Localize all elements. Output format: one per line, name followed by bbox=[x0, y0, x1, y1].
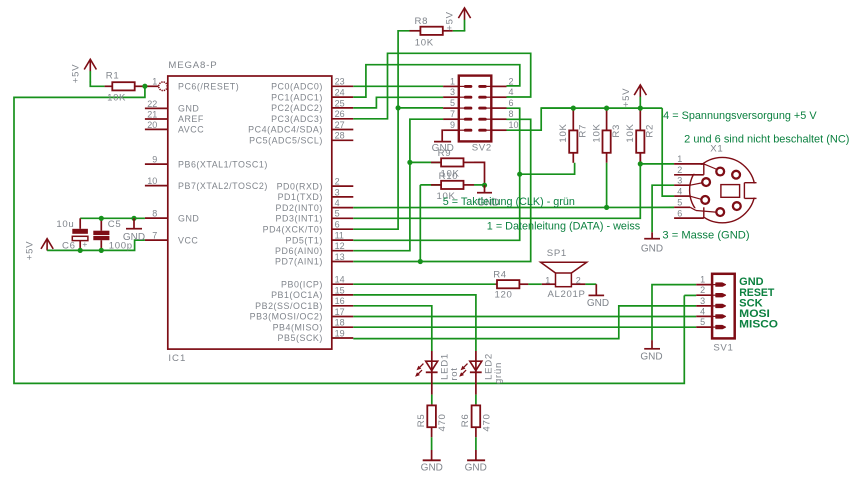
svg-text:1: 1 bbox=[545, 275, 550, 285]
svg-text:3 = Masse (GND): 3 = Masse (GND) bbox=[662, 229, 749, 241]
wire PB5 pin19 to SV1 pin3 SCK bbox=[353, 306, 696, 339]
junction R3 / CLK bbox=[604, 205, 609, 210]
svg-text:4: 4 bbox=[700, 306, 705, 316]
svg-text:10K: 10K bbox=[415, 38, 434, 49]
svg-text:PB0(ICP): PB0(ICP) bbox=[281, 279, 323, 289]
svg-text:PD3(INT1): PD3(INT1) bbox=[276, 214, 323, 224]
svg-text:1: 1 bbox=[152, 77, 157, 87]
svg-text:PD1(TXD): PD1(TXD) bbox=[278, 192, 323, 202]
svg-text:PC4(ADC4/SDA): PC4(ADC4/SDA) bbox=[248, 125, 323, 135]
svg-text:4: 4 bbox=[677, 186, 682, 196]
wire node to SV2 pin 5 bbox=[398, 107, 443, 109]
svg-text:PB7(XTAL2/TOSC2): PB7(XTAL2/TOSC2) bbox=[178, 181, 268, 191]
svg-text:+5V: +5V bbox=[445, 11, 456, 30]
IC1 pin 22 GND bbox=[145, 99, 199, 114]
svg-text:10u: 10u bbox=[56, 219, 74, 230]
IC1 pin 17 PB3(MOSI/OC2) bbox=[250, 307, 354, 322]
resistor R2 10K bbox=[625, 108, 656, 163]
svg-text:GND: GND bbox=[587, 298, 609, 309]
svg-text:GND: GND bbox=[465, 463, 487, 474]
SV1 pin 2 RESET bbox=[696, 285, 775, 299]
svg-text:25: 25 bbox=[335, 98, 345, 108]
IC1 pin 12 PD6(AIN0) bbox=[275, 241, 353, 256]
svg-text:2: 2 bbox=[677, 165, 682, 175]
wire DATA riser to PD3 pin5 bbox=[353, 164, 640, 218]
resistor R7 10K bbox=[558, 108, 589, 163]
resistor R5 470 bbox=[416, 405, 448, 431]
wire +5V rail to VCC bbox=[47, 240, 145, 250]
svg-text:PC2(ADC2): PC2(ADC2) bbox=[271, 103, 323, 113]
IC1 pin 26 PC3(ADC3) bbox=[271, 109, 353, 124]
svg-text:PC5(ADC5/SCL): PC5(ADC5/SCL) bbox=[249, 136, 323, 146]
+5V supply symbol (R8) bbox=[445, 8, 471, 31]
svg-text:5: 5 bbox=[700, 317, 705, 327]
junction R3 top bbox=[604, 106, 609, 111]
svg-text:GND: GND bbox=[640, 351, 662, 362]
junction R9 left bbox=[407, 160, 412, 165]
resistor R9 bbox=[410, 148, 474, 179]
wire PB0 pin14 to R4 bbox=[353, 283, 495, 285]
IC IC1 MEGA8-P body bbox=[168, 60, 332, 364]
svg-text:4: 4 bbox=[335, 198, 340, 208]
wire R8 left riser bbox=[398, 31, 409, 108]
IC1 pin 23 PC0(ADC0) bbox=[271, 77, 353, 92]
IC1 pin 10 PB7(XTAL2/TOSC2) bbox=[145, 176, 268, 191]
+5V supply symbol (R1) bbox=[71, 59, 97, 83]
wire DATA node to X1 pin1 bbox=[640, 163, 674, 165]
svg-text:PB6(XTAL1/TOSC1): PB6(XTAL1/TOSC1) bbox=[178, 159, 268, 169]
svg-text:R4: R4 bbox=[493, 269, 507, 280]
IC1 pin 5 PD3(INT1) bbox=[276, 209, 354, 224]
wire PB2 pin16 to LED1 bbox=[353, 306, 432, 351]
ground symbol (R5) bbox=[421, 460, 443, 473]
svg-text:AREF: AREF bbox=[178, 114, 204, 124]
wire R9 right to GND node bbox=[474, 162, 485, 185]
wire SV2 pin7 riser to R9 and PD6 pin12 bbox=[353, 119, 443, 251]
svg-text:28: 28 bbox=[335, 131, 345, 141]
IC1 pin 6 PD4(XCK/T0) bbox=[263, 220, 354, 235]
svg-text:R3: R3 bbox=[611, 124, 622, 138]
wire GND rail (C6 C5 to pin 8) bbox=[80, 217, 145, 219]
IC1 pin 7 VCC bbox=[145, 231, 199, 246]
svg-text:5: 5 bbox=[677, 198, 682, 208]
+5V supply symbol (pullup rail) bbox=[621, 85, 646, 108]
resistor R1 bbox=[105, 71, 145, 104]
wire PC3 pin26 to SV2 pin4 bbox=[353, 53, 530, 119]
svg-text:GND: GND bbox=[641, 243, 663, 254]
SV2 pin 1 bbox=[443, 76, 471, 86]
wire LED2 to R6 bbox=[475, 372, 477, 405]
resistor R6 470 bbox=[460, 405, 492, 431]
svg-text:1: 1 bbox=[677, 154, 682, 164]
svg-text:AVCC: AVCC bbox=[178, 125, 204, 135]
svg-text:10K: 10K bbox=[107, 92, 126, 103]
connector SV1 pin header 1x5 bbox=[712, 274, 735, 354]
svg-text:R8: R8 bbox=[415, 16, 429, 27]
IC1 pin 13 PD7(AIN1) bbox=[275, 252, 353, 267]
svg-text:+: + bbox=[82, 239, 87, 249]
junction C5 bottom bbox=[99, 248, 104, 253]
svg-text:6: 6 bbox=[509, 98, 514, 108]
wire R5 to GND bbox=[431, 427, 433, 460]
svg-text:2: 2 bbox=[576, 275, 581, 285]
IC1 pin 19 PB5(SCK) bbox=[278, 328, 354, 343]
svg-text:1: 1 bbox=[450, 76, 455, 86]
svg-text:24: 24 bbox=[335, 88, 345, 98]
svg-text:PC3(ADC3): PC3(ADC3) bbox=[271, 114, 323, 124]
svg-text:PB2(SS/OC1B): PB2(SS/OC1B) bbox=[255, 301, 323, 311]
SV2 pin 4 bbox=[480, 87, 514, 97]
wire PC2 pin25 to SV2 pin3 bbox=[353, 97, 443, 108]
junction C6 bottom bbox=[78, 248, 83, 253]
wire R3 bottom to CLK line bbox=[606, 163, 608, 208]
svg-text:2: 2 bbox=[700, 285, 705, 295]
capacitor C5 100p bbox=[93, 218, 132, 251]
wire PC0 pin23 to SV2 pin1 bbox=[353, 85, 443, 87]
svg-text:10K: 10K bbox=[591, 123, 602, 142]
svg-text:SV1: SV1 bbox=[713, 342, 733, 353]
junction R7 top bbox=[571, 106, 576, 111]
svg-text:12: 12 bbox=[335, 241, 345, 251]
svg-text:R9: R9 bbox=[438, 148, 452, 159]
+5V supply symbol (C6) bbox=[24, 239, 53, 261]
svg-text:6: 6 bbox=[335, 220, 340, 230]
IC1 pin 25 PC2(ADC2) bbox=[271, 98, 353, 113]
junction R2 top / +5V bbox=[638, 106, 643, 111]
svg-text:15: 15 bbox=[335, 285, 345, 295]
wire +5V rail to X1 pin 4 bbox=[662, 108, 674, 196]
IC1 pin 28 PC5(ADC5/SCL) bbox=[249, 131, 353, 146]
svg-text:+5V: +5V bbox=[24, 241, 35, 260]
svg-text:GND: GND bbox=[123, 232, 145, 243]
svg-text:rot: rot bbox=[449, 367, 460, 380]
svg-text:8: 8 bbox=[152, 209, 157, 219]
wire X1 pin3 to GND bbox=[652, 185, 674, 232]
svg-text:470: 470 bbox=[482, 413, 493, 431]
IC1 pin 16 PB2(SS/OC1B) bbox=[255, 296, 353, 311]
svg-text:6: 6 bbox=[677, 208, 682, 218]
speaker SP1 AL201P bbox=[541, 248, 587, 300]
capacitor C6 10u bbox=[56, 218, 88, 251]
junction R9/R10 GND bbox=[482, 183, 487, 188]
svg-text:GND: GND bbox=[421, 463, 443, 474]
svg-text:R1: R1 bbox=[106, 71, 120, 82]
svg-text:27: 27 bbox=[335, 120, 345, 130]
wire R6 to GND bbox=[475, 427, 477, 460]
svg-text:1: 1 bbox=[700, 275, 705, 285]
svg-text:4 = Spannungsversorgung +5 V: 4 = Spannungsversorgung +5 V bbox=[663, 110, 817, 122]
svg-text:9: 9 bbox=[450, 120, 455, 130]
svg-text:+5V: +5V bbox=[621, 88, 632, 107]
wire node to PD4 pin 6 bbox=[353, 108, 398, 229]
svg-text:PD5(T1): PD5(T1) bbox=[286, 235, 323, 245]
svg-text:470: 470 bbox=[437, 413, 448, 431]
svg-text:20: 20 bbox=[147, 120, 157, 130]
svg-text:MEGA8-P: MEGA8-P bbox=[168, 60, 217, 71]
X1 pin 6 bbox=[674, 208, 704, 218]
IC1 pin 2 PD0(RXD) bbox=[277, 177, 354, 192]
X1 pin 3 bbox=[674, 175, 690, 185]
junction C5 top bbox=[99, 216, 104, 221]
svg-text:2: 2 bbox=[509, 76, 514, 86]
ground symbol (R6) bbox=[465, 460, 487, 473]
svg-text:IC1: IC1 bbox=[168, 353, 186, 364]
svg-text:GND: GND bbox=[178, 104, 199, 114]
svg-text:7: 7 bbox=[450, 109, 455, 119]
IC1 pin 8 GND bbox=[145, 209, 199, 224]
IC1 pin 15 PB1(OC1A) bbox=[271, 285, 353, 300]
LED LED1 rot bbox=[415, 351, 460, 381]
wire R8 to +5V bbox=[453, 29, 465, 32]
SV2 pin 8 bbox=[480, 109, 514, 119]
svg-text:+5V: +5V bbox=[71, 64, 82, 83]
wire PC1 pin24 to SV2 pin2 bbox=[353, 65, 520, 97]
wire R10 to PD7 pin13 riser bbox=[419, 185, 421, 262]
SV2 pin 9 bbox=[443, 120, 471, 130]
svg-text:R6: R6 bbox=[460, 414, 471, 428]
svg-text:PD2(INT0): PD2(INT0) bbox=[276, 203, 323, 213]
IC1 pin 24 PC1(ADC1) bbox=[271, 88, 353, 103]
svg-text:R10: R10 bbox=[439, 171, 459, 182]
svg-text:10: 10 bbox=[509, 120, 519, 130]
IC1 pin 20 AVCC bbox=[145, 120, 204, 135]
svg-text:3: 3 bbox=[700, 296, 705, 306]
wire R2 bottom to DATA node bbox=[639, 152, 641, 164]
svg-text:PC0(ADC0): PC0(ADC0) bbox=[271, 82, 323, 92]
SV2 pin 10 bbox=[480, 120, 519, 130]
svg-text:R2: R2 bbox=[645, 124, 656, 138]
ground symbol (R9/R10) bbox=[477, 185, 499, 208]
SV1 pin 3 SCK bbox=[696, 296, 763, 310]
X1 pin 4 bbox=[674, 186, 690, 196]
SV2 pin 6 bbox=[480, 98, 514, 108]
svg-text:PC6(/RESET): PC6(/RESET) bbox=[178, 82, 239, 92]
svg-text:GND: GND bbox=[178, 213, 199, 223]
svg-text:2: 2 bbox=[335, 177, 340, 187]
svg-text:18: 18 bbox=[335, 318, 345, 328]
svg-text:PD0(RXD): PD0(RXD) bbox=[277, 181, 323, 191]
ground symbol (C5/C6 rail) bbox=[123, 218, 145, 243]
svg-text:5: 5 bbox=[335, 209, 340, 219]
svg-text:16: 16 bbox=[335, 296, 345, 306]
SV1 pin 1 GND bbox=[696, 275, 764, 289]
IC1 pin 9 PB6(XTAL1/TOSC1) bbox=[145, 155, 268, 170]
wire PD7 pin13 to SV2 pin8 bbox=[353, 119, 530, 261]
connector X1 PS/2 mini-DIN bbox=[688, 143, 757, 223]
svg-text:13: 13 bbox=[335, 252, 345, 262]
svg-text:5: 5 bbox=[450, 98, 455, 108]
svg-text:3: 3 bbox=[335, 187, 340, 197]
svg-text:PD6(AIN0): PD6(AIN0) bbox=[275, 246, 323, 256]
svg-text:3: 3 bbox=[677, 175, 682, 185]
junction R2 / DATA / X1 pin1 bbox=[638, 161, 643, 166]
SV2 pin 5 bbox=[443, 98, 471, 108]
wire SV2 pin6 riser to R7 bottom and PD5 pin11 bbox=[353, 108, 519, 240]
IC1 pin 11 PD5(T1) bbox=[286, 231, 354, 246]
ground symbol (X1 pin3) bbox=[641, 232, 663, 254]
resistor R3 10K bbox=[591, 108, 622, 163]
IC1 pin 3 PD1(TXD) bbox=[278, 187, 354, 202]
svg-text:5 = Taktleitung (CLK) - grün: 5 = Taktleitung (CLK) - grün bbox=[443, 196, 575, 208]
wire CLK PD2 pin4 to X1 pin5 bbox=[353, 206, 674, 208]
svg-text:PC1(ADC1): PC1(ADC1) bbox=[271, 92, 323, 102]
SV2 pin 2 bbox=[480, 76, 514, 86]
wire PB1 pin15 to LED2 bbox=[353, 295, 476, 351]
svg-text:14: 14 bbox=[335, 275, 345, 285]
svg-text:10K: 10K bbox=[625, 123, 636, 142]
svg-text:SV2: SV2 bbox=[472, 143, 492, 154]
svg-text:PB3(MOSI/OC2): PB3(MOSI/OC2) bbox=[250, 312, 323, 322]
wire R7 bottom to junction bbox=[520, 163, 575, 174]
IC1 pin 27 PC4(ADC4/SDA) bbox=[248, 120, 353, 135]
svg-text:C5: C5 bbox=[108, 219, 122, 230]
IC1 pin 4 PD2(INT0) bbox=[276, 198, 354, 213]
ground symbol (SV1 pin1) bbox=[640, 340, 662, 362]
svg-text:2 und 6 sind nicht beschaltet: 2 und 6 sind nicht beschaltet (NC) bbox=[684, 133, 849, 145]
wire PB4 pin18 to SV1 pin5 MISO bbox=[353, 326, 696, 328]
svg-text:9: 9 bbox=[152, 155, 157, 165]
junction SV2 pin6 / R7 bbox=[517, 172, 522, 177]
svg-text:PB4(MISO): PB4(MISO) bbox=[273, 322, 323, 332]
wire SV1 pin1 to GND bbox=[652, 285, 696, 341]
+5V rail bbox=[541, 107, 662, 109]
SV1 pin 5 MISCO bbox=[696, 317, 778, 331]
svg-text:10K: 10K bbox=[558, 123, 569, 142]
junction node RESET at R1 bbox=[142, 84, 147, 89]
wire PB3 pin17 to SV1 pin4 MOSI bbox=[353, 316, 696, 318]
svg-text:SP1: SP1 bbox=[547, 248, 567, 259]
svg-text:10: 10 bbox=[147, 176, 157, 186]
svg-text:PD7(AIN1): PD7(AIN1) bbox=[275, 257, 323, 267]
junction PD7 pin13 bbox=[418, 259, 423, 264]
svg-text:PD4(XCK/T0): PD4(XCK/T0) bbox=[263, 224, 323, 234]
SV2 pin 7 bbox=[443, 109, 471, 119]
wire R4 to SP1 bbox=[528, 283, 541, 285]
svg-text:120: 120 bbox=[495, 290, 513, 301]
IC1 pin 18 PB4(MISO) bbox=[273, 318, 354, 333]
svg-text:grün: grün bbox=[493, 362, 504, 384]
ground symbol (SV2 pin 9) bbox=[432, 130, 454, 154]
LED LED2 gruen bbox=[459, 351, 504, 384]
svg-text:22: 22 bbox=[147, 99, 157, 109]
svg-text:26: 26 bbox=[335, 109, 345, 119]
IC1 pin 1 PC6(/RESET) bbox=[145, 77, 239, 92]
wire LED1 to R5 bbox=[431, 372, 433, 405]
svg-text:4: 4 bbox=[509, 87, 514, 97]
svg-text:PB1(OC1A): PB1(OC1A) bbox=[271, 290, 323, 300]
svg-text:R7: R7 bbox=[578, 124, 589, 138]
resistor R4 120 bbox=[493, 269, 528, 300]
wire SV1 pin2 RESET stub bbox=[684, 294, 696, 296]
svg-text:C6: C6 bbox=[62, 241, 76, 252]
svg-text:17: 17 bbox=[335, 307, 345, 317]
svg-text:AL201P: AL201P bbox=[548, 289, 586, 300]
X1 pin 1 bbox=[674, 154, 704, 164]
wire RESET net left loop bbox=[14, 86, 684, 383]
X1 left step edges bbox=[703, 164, 705, 175]
wire +5V to R1 bbox=[90, 82, 104, 87]
svg-text:1 = Datenleitung (DATA) - weis: 1 = Datenleitung (DATA) - weiss bbox=[487, 221, 641, 233]
svg-text:8: 8 bbox=[509, 109, 514, 119]
wire SP1 pin2 to GND bbox=[585, 283, 596, 285]
resistor R10 bbox=[420, 171, 484, 202]
junction GND stem bbox=[131, 216, 136, 221]
svg-text:7: 7 bbox=[152, 231, 157, 241]
svg-text:23: 23 bbox=[335, 77, 345, 87]
svg-text:21: 21 bbox=[147, 109, 157, 119]
svg-text:3: 3 bbox=[450, 87, 455, 97]
resistor R8 bbox=[410, 16, 453, 49]
junction R8/SV2 pin5/PD4 node bbox=[396, 105, 401, 110]
SV2 pin 3 bbox=[443, 87, 471, 97]
svg-text:PB5(SCK): PB5(SCK) bbox=[278, 333, 323, 343]
svg-text:11: 11 bbox=[335, 231, 344, 241]
wire SV2 pin10 to +5V rail bbox=[507, 108, 574, 130]
ground symbol (SP1) bbox=[587, 284, 609, 309]
svg-text:VCC: VCC bbox=[178, 235, 198, 245]
connector SV2 pin header 2x5 bbox=[459, 76, 492, 154]
svg-text:19: 19 bbox=[335, 328, 345, 338]
IC1 pin 21 AREF bbox=[145, 109, 204, 124]
svg-text:MISCO: MISCO bbox=[739, 319, 778, 331]
svg-text:R5: R5 bbox=[416, 414, 427, 428]
IC1 pin 14 PB0(ICP) bbox=[281, 275, 353, 290]
X1 pin 2 bbox=[674, 165, 704, 175]
X1 pin 5 bbox=[674, 198, 690, 208]
SV1 pin 4 MOSI bbox=[696, 306, 770, 320]
